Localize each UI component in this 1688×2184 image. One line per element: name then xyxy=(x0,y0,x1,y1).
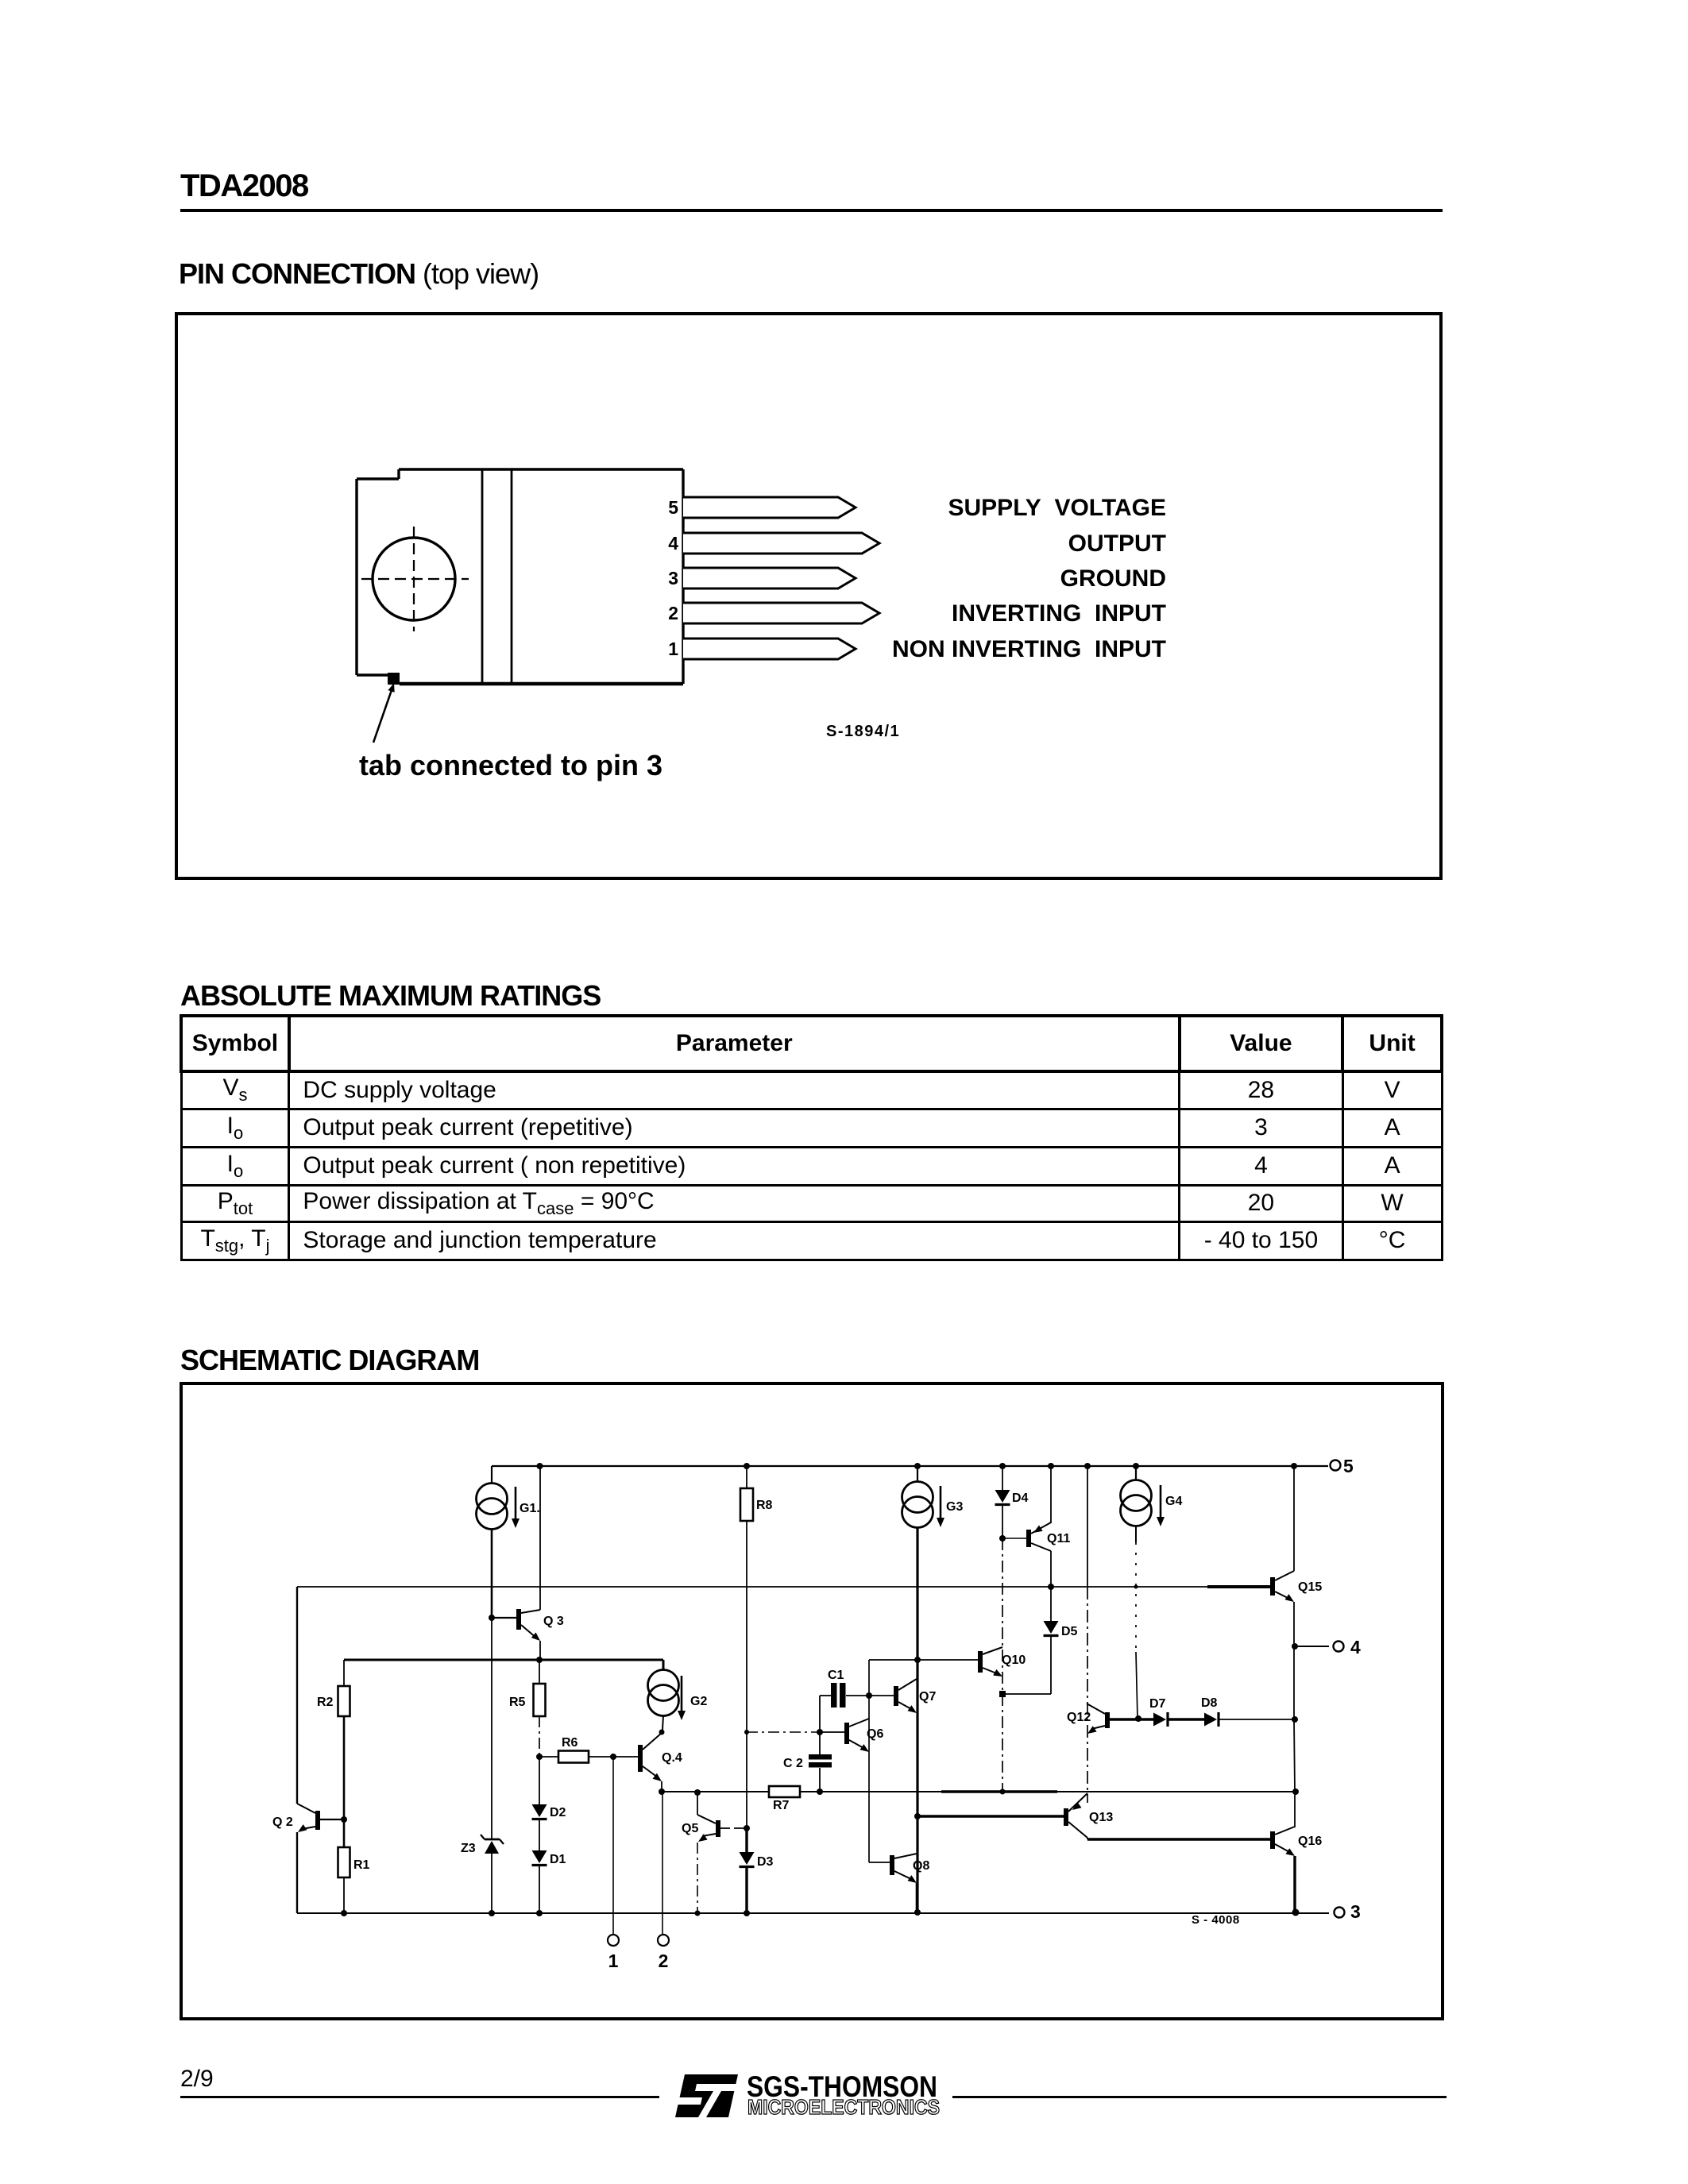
wire: Q3 emitter down xyxy=(539,1641,541,1660)
section heading ABSOLUTE MAXIMUM RATINGS xyxy=(180,979,601,1013)
diode D7 xyxy=(1153,1712,1168,1727)
resistor R7 xyxy=(769,1786,800,1797)
svg-text:G4: G4 xyxy=(1165,1495,1182,1508)
svg-text:S-1894/1: S-1894/1 xyxy=(826,723,900,740)
wire: Q6 collector/emitter vertical xyxy=(868,1660,870,1862)
node: C2 junction xyxy=(817,1788,823,1795)
node: rail-Q11 junction xyxy=(1048,1463,1054,1469)
wire: Q16 emitter to ground (bold) xyxy=(1293,1856,1296,1912)
Q16 label xyxy=(1298,1835,1322,1848)
svg-text:2: 2 xyxy=(668,603,678,623)
node: Q13 base junction xyxy=(914,1813,921,1819)
wire: emitter-degeneration top wire (bold) xyxy=(344,1659,663,1661)
terminal 3 (ground) xyxy=(1335,1908,1345,1918)
diode D4 xyxy=(995,1466,1010,1538)
wire: Q11 base xyxy=(1002,1538,1026,1539)
terminal 3 label xyxy=(1350,1901,1361,1922)
terminal 5 (supply voltage) xyxy=(1331,1461,1341,1471)
svg-text:G2: G2 xyxy=(690,1695,707,1708)
transistor Q4 xyxy=(638,1733,662,1781)
wire: Q6 base (dash-dot) xyxy=(747,1731,844,1733)
node: C1 - Q7 base junction xyxy=(866,1692,872,1699)
terminal 4 (output) xyxy=(1334,1642,1344,1652)
transistor Q13 (pnp) xyxy=(1064,1793,1087,1838)
svg-text:tab connected to pin 3: tab connected to pin 3 xyxy=(359,749,662,781)
wire: pin 2 line xyxy=(662,1792,663,1935)
node: D3 ground junction xyxy=(744,1910,750,1916)
Q13 label xyxy=(1089,1811,1113,1824)
svg-text:R8: R8 xyxy=(756,1499,773,1512)
svg-text:Q11: Q11 xyxy=(1047,1532,1070,1545)
figure code S-4008 xyxy=(1192,1913,1240,1927)
pin 5 lead xyxy=(683,497,856,518)
tab annotation text xyxy=(359,749,662,781)
Q4 label xyxy=(662,1751,682,1765)
svg-text:D7: D7 xyxy=(1149,1697,1166,1711)
D7 label xyxy=(1149,1697,1166,1711)
svg-text:R6: R6 xyxy=(562,1736,578,1750)
wire: Q11 collector to D5 xyxy=(1050,1551,1052,1621)
terminal 1 (non inverting input) xyxy=(608,1935,619,1946)
D4 label xyxy=(1012,1491,1029,1505)
wire: feedback line left drop to Q2 xyxy=(296,1587,298,1804)
svg-text:C 2: C 2 xyxy=(783,1757,803,1770)
node: D5 line - feedback junction xyxy=(1048,1584,1054,1590)
G2 label xyxy=(690,1695,707,1708)
G4 label xyxy=(1165,1495,1182,1508)
transistor Q7 xyxy=(869,1679,917,1713)
wire: pin 1 line xyxy=(612,1757,614,1935)
node: output line - R7 wire junction xyxy=(1292,1788,1299,1795)
svg-text:C1: C1 xyxy=(828,1669,844,1682)
footer rule left xyxy=(180,2096,659,2098)
node: G4 - D7 junction xyxy=(1135,1715,1141,1722)
resistor R5 xyxy=(534,1660,546,1757)
SGS-Thomson ST logo xyxy=(675,2074,738,2117)
pin number 4 xyxy=(668,533,678,554)
pin number 3 xyxy=(668,568,678,588)
node: Q13 emitter line crossing dot xyxy=(1000,1789,1006,1795)
svg-text:D5: D5 xyxy=(1061,1625,1078,1638)
wire: Q16 base (bold) xyxy=(1087,1838,1270,1840)
Q5 label xyxy=(682,1822,698,1835)
node: Q5 ground junction xyxy=(695,1911,701,1916)
svg-text:R1: R1 xyxy=(353,1858,370,1872)
svg-text:NON INVERTING INPUT: NON INVERTING INPUT xyxy=(892,636,1166,662)
current source G3 xyxy=(902,1466,933,1528)
node: D8-output junction xyxy=(1292,1716,1298,1723)
mounting hole circle with crosshair xyxy=(361,527,469,631)
wire: Q15 collector to rail xyxy=(1293,1466,1295,1571)
tab mark (connected to pin 3) xyxy=(388,673,400,685)
node: rail-R8 junction xyxy=(744,1463,750,1469)
wire: +Vs top rail (pin 5 net) xyxy=(492,1465,1328,1467)
svg-text:2: 2 xyxy=(659,1951,669,1971)
wire: Q6 collector top corner to main line xyxy=(869,1659,917,1661)
svg-text:D4: D4 xyxy=(1012,1491,1029,1505)
wire: D7-D8 xyxy=(1168,1718,1204,1721)
terminal 4 label xyxy=(1350,1637,1361,1657)
figure code S-1894/1 xyxy=(826,723,900,740)
section heading PIN CONNECTION xyxy=(179,257,539,291)
C2 label xyxy=(783,1757,803,1770)
current source G2 xyxy=(648,1660,679,1730)
terminal 2 (inverting input) xyxy=(658,1935,669,1946)
Q11 label xyxy=(1047,1532,1070,1545)
capacitor C1 xyxy=(820,1683,869,1707)
wire: Q5 base xyxy=(720,1827,747,1829)
svg-text:D2: D2 xyxy=(550,1806,566,1819)
node: R5-R6 junction xyxy=(536,1754,543,1760)
svg-text:D3: D3 xyxy=(757,1855,774,1869)
pin 3 function label xyxy=(1060,565,1166,592)
R7 label xyxy=(773,1799,790,1812)
header rule xyxy=(180,209,1443,212)
current source G1 xyxy=(477,1466,508,1618)
pin 4 lead xyxy=(683,533,879,554)
node: D5 corner junction xyxy=(999,1691,1006,1697)
wire: Q5 emitter to ground (dash-dot) xyxy=(697,1843,698,1913)
wire: Q13 emitter / Q12 line (dash-dot) xyxy=(1087,1587,1088,1803)
pin 2 function label xyxy=(952,600,1166,627)
transistor Q2 xyxy=(297,1804,320,1832)
node: G1-Q3 base junction xyxy=(489,1615,495,1621)
pin 3 lead xyxy=(683,568,856,588)
G4 arrow xyxy=(1157,1485,1165,1526)
svg-text:5: 5 xyxy=(668,497,678,518)
zener Z3 xyxy=(481,1618,504,1913)
current source G4 xyxy=(1121,1466,1152,1542)
transistor Q10 xyxy=(917,1647,1002,1677)
wire: D8 to output line xyxy=(1219,1719,1294,1720)
svg-text:Q15: Q15 xyxy=(1298,1580,1322,1594)
pin 1 lead xyxy=(683,639,856,659)
terminal 2 label xyxy=(659,1951,669,1971)
svg-text:3: 3 xyxy=(668,568,678,588)
Q3 label xyxy=(543,1615,564,1628)
svg-text:Q10: Q10 xyxy=(1002,1653,1026,1667)
R5 label xyxy=(509,1696,526,1709)
tab annotation arrow xyxy=(373,683,395,743)
footer rule right xyxy=(952,2096,1447,2098)
terminal 1 label xyxy=(608,1951,619,1971)
svg-text:4: 4 xyxy=(1350,1637,1361,1657)
transistor Q15 xyxy=(1270,1571,1294,1602)
svg-text:5: 5 xyxy=(1343,1456,1354,1476)
wire: Q12 output bold xyxy=(1110,1718,1153,1721)
G1 arrow xyxy=(512,1487,520,1528)
node: C1 - Q6 base junction xyxy=(817,1729,823,1735)
pin 4 function label xyxy=(1068,531,1166,557)
Q10 label xyxy=(1002,1653,1026,1667)
resistor R6 xyxy=(539,1751,638,1763)
node: G4 line - feedback crossing dot xyxy=(1134,1585,1138,1589)
svg-text:Q 3: Q 3 xyxy=(543,1615,564,1628)
node: D4-Q11 base junction xyxy=(999,1535,1006,1542)
transistor Q11 (pnp) xyxy=(1026,1522,1051,1551)
svg-text:S - 4008: S - 4008 xyxy=(1192,1913,1240,1927)
node: output terminal-4 junction xyxy=(1292,1643,1298,1650)
wire: Q3 base xyxy=(492,1617,516,1619)
resistor R1 xyxy=(338,1819,350,1913)
svg-text:G3: G3 xyxy=(946,1500,963,1514)
node: Q4 emitter junction xyxy=(659,1788,665,1795)
wire: Q4 emitter to output wire xyxy=(661,1781,662,1792)
svg-text:4: 4 xyxy=(668,533,678,554)
resistor R8 xyxy=(740,1466,753,1828)
node: Q2 base junction xyxy=(341,1816,347,1823)
transistor Q6 xyxy=(844,1719,869,1752)
R1 label xyxy=(353,1858,370,1872)
svg-text:G1.: G1. xyxy=(520,1502,540,1515)
node: Q8 emitter-ground junction xyxy=(914,1909,921,1916)
node: D1 ground junction xyxy=(536,1910,543,1916)
svg-text:Q.4: Q.4 xyxy=(662,1751,682,1765)
pin 2 lead xyxy=(683,603,879,623)
svg-text:Q7: Q7 xyxy=(919,1690,936,1704)
package tab (heatsink) outline xyxy=(357,469,399,675)
wire: Q15 emitter down xyxy=(1293,1602,1295,1646)
G3 arrow xyxy=(937,1486,944,1527)
node: Q10 base junction xyxy=(914,1657,921,1663)
Q15 label xyxy=(1298,1580,1322,1594)
svg-text:R5: R5 xyxy=(509,1696,526,1709)
svg-text:R2: R2 xyxy=(317,1696,334,1709)
G1 label xyxy=(520,1502,540,1515)
pin 1 function label xyxy=(892,636,1166,662)
absolute maximum ratings table xyxy=(180,1014,1443,1261)
Q8 label xyxy=(913,1859,929,1873)
wire: terminal 4 stub xyxy=(1295,1646,1329,1647)
D1 label xyxy=(550,1853,566,1866)
node: Q5 collector junction xyxy=(694,1789,701,1796)
wire: Q8 emitter to ground xyxy=(916,1883,918,1912)
wire: G4 output dotted xyxy=(1136,1542,1138,1719)
Q6 label xyxy=(867,1727,883,1741)
Z3 label xyxy=(461,1842,476,1855)
pin 5 function label xyxy=(948,495,1167,521)
svg-text:Z3: Z3 xyxy=(461,1842,476,1855)
pin number 5 xyxy=(668,497,678,518)
pin number 2 xyxy=(668,603,678,623)
svg-text:MICROELECTRONICS: MICROELECTRONICS xyxy=(747,2095,940,2119)
wire: Q13 emitter top segment to rail xyxy=(1087,1466,1088,1587)
G2 arrow xyxy=(678,1676,686,1720)
node: rail-G4 junction xyxy=(1133,1463,1139,1469)
R8 label xyxy=(756,1499,773,1512)
R2 label xyxy=(317,1696,334,1709)
wire: Q15 base bold segment xyxy=(1207,1585,1270,1588)
node: R1 ground junction xyxy=(341,1910,347,1916)
diode D2 xyxy=(532,1757,547,1850)
pin number 1 xyxy=(668,639,678,659)
svg-text:Q5: Q5 xyxy=(682,1822,698,1835)
wire: G3 output / Q7-Q8 collector line (bold) xyxy=(916,1527,918,1912)
transistor Q16 xyxy=(1270,1827,1295,1856)
wire: Q2 emitter to ground xyxy=(296,1832,298,1913)
svg-text:1: 1 xyxy=(608,1951,619,1971)
MICROELECTRONICS wordmark xyxy=(747,2095,940,2119)
Q2 label xyxy=(272,1815,293,1829)
D3 label xyxy=(757,1855,774,1869)
svg-text:D8: D8 xyxy=(1201,1696,1218,1710)
node: rail-Q13 emitter line junction xyxy=(1084,1463,1091,1469)
svg-text:Q 2: Q 2 xyxy=(272,1815,293,1829)
node: G2-Q4 collector junction xyxy=(659,1730,665,1735)
capacitor C2 xyxy=(809,1754,832,1792)
diode D8 xyxy=(1204,1712,1219,1727)
svg-text:Q16: Q16 xyxy=(1298,1835,1322,1848)
Q7 label xyxy=(919,1690,936,1704)
D8 label xyxy=(1201,1696,1218,1710)
wire: D4/D5/Q10 vertical (dash-dot) xyxy=(1002,1538,1003,1790)
svg-text:Q8: Q8 xyxy=(913,1859,929,1873)
diode D5 xyxy=(1002,1621,1059,1694)
svg-text:Q13: Q13 xyxy=(1089,1811,1113,1824)
node: Q3 emitter / R5 junction xyxy=(536,1657,543,1663)
wire: Q5 collector up xyxy=(697,1793,698,1815)
wire: R7 horizontal run xyxy=(662,1791,1296,1792)
node: rail-D4 junction xyxy=(999,1463,1006,1469)
wire: Q2 base xyxy=(320,1819,344,1820)
D5 label xyxy=(1061,1625,1078,1638)
Q12 label xyxy=(1067,1711,1091,1724)
C1 label xyxy=(828,1669,844,1682)
wire: Q15 emitter / Q16 collector line xyxy=(1294,1646,1295,1827)
diode D1 xyxy=(532,1850,547,1913)
section heading SCHEMATIC DIAGRAM xyxy=(180,1344,479,1377)
R6 label xyxy=(562,1736,578,1750)
svg-text:GROUND: GROUND xyxy=(1060,565,1166,592)
node: Q5 base - R8/D3 junction xyxy=(744,1825,750,1831)
node: R8 - Q6 base junction xyxy=(744,1730,749,1734)
svg-text:OUTPUT: OUTPUT xyxy=(1068,531,1166,557)
wire: ground rail (pin 3 net) xyxy=(297,1912,1329,1914)
diode D3 xyxy=(740,1828,755,1913)
transistor Q5 (mirrored) xyxy=(697,1815,720,1842)
wire: Q11 emitter to rail xyxy=(1050,1466,1052,1523)
node: rail-Q15 collector junction xyxy=(1291,1463,1297,1469)
SGS-THOMSON wordmark xyxy=(747,2070,937,2103)
wire: Q3-base feedback line to Q15 base xyxy=(297,1586,1270,1588)
wire: Q13 base (bold) xyxy=(917,1815,1064,1818)
wire: C1 left lead down to C2 xyxy=(819,1696,821,1755)
terminal 5 label xyxy=(1343,1456,1354,1476)
svg-text:INVERTING INPUT: INVERTING INPUT xyxy=(952,600,1166,627)
wire: Q3 collector to rail xyxy=(539,1466,541,1610)
transistor Q8 xyxy=(869,1854,917,1883)
svg-text:D1: D1 xyxy=(550,1853,566,1866)
schematic box xyxy=(180,1382,1444,2020)
package body outline xyxy=(399,469,683,684)
node: rail-G3 junction xyxy=(914,1463,921,1469)
transistor Q12 (mirrored) xyxy=(1087,1704,1110,1734)
pin connection box xyxy=(175,312,1443,880)
svg-text:R7: R7 xyxy=(773,1799,790,1812)
resistor R2 xyxy=(338,1660,350,1819)
G3 label xyxy=(946,1500,963,1514)
wire: Q13 collector corner xyxy=(1087,1838,1088,1839)
svg-text:3: 3 xyxy=(1350,1901,1361,1922)
page title TDA2008 xyxy=(180,168,308,204)
svg-text:SUPPLY VOLTAGE: SUPPLY VOLTAGE xyxy=(948,495,1167,521)
node: Z3 ground junction xyxy=(489,1910,495,1916)
node: Q16 ground junction xyxy=(1292,1909,1300,1916)
D2 label xyxy=(550,1806,566,1819)
node: rail-Q3 junction xyxy=(537,1463,543,1469)
node: R6 - pin1 junction xyxy=(610,1754,616,1760)
transistor Q3 xyxy=(516,1609,540,1641)
footer page number 2/9 xyxy=(180,2066,214,2093)
svg-text:1: 1 xyxy=(668,639,678,659)
